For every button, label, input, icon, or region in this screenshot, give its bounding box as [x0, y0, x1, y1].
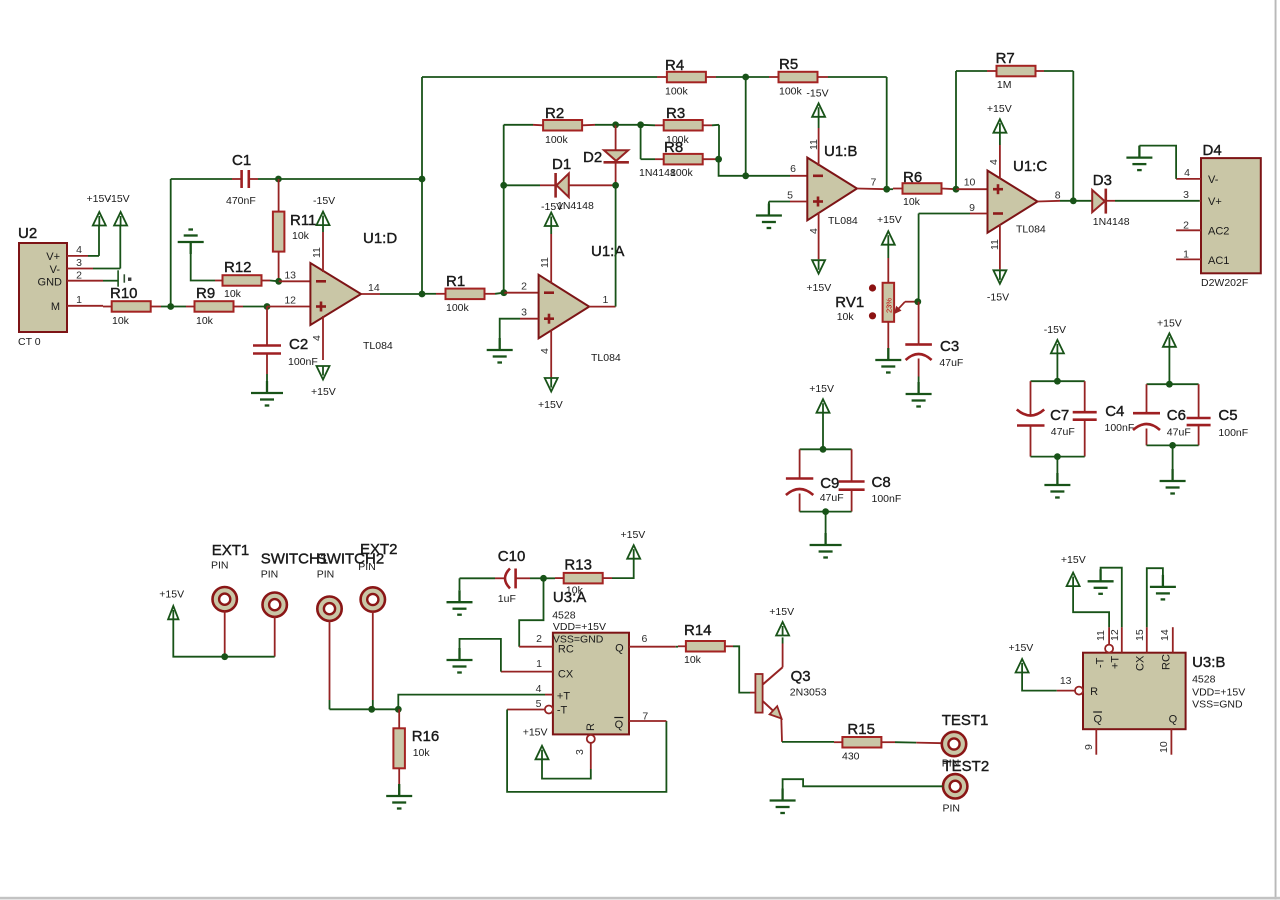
- wire V- riser: [119, 225, 121, 268]
- window edge bottom: [0, 897, 1280, 899]
- U1:A pin 3 ground wire: [500, 319, 539, 338]
- svg-text:CT 0: CT 0: [18, 336, 41, 348]
- wire C2 bottom: [266, 354, 268, 394]
- svg-text:+15V: +15V: [987, 103, 1012, 115]
- U1:B output wire: [857, 188, 887, 191]
- svg-text:Q: Q: [615, 643, 624, 655]
- node junction C1/R11: [275, 176, 282, 183]
- D4 pin 4 stub: [1176, 167, 1201, 179]
- svg-text:D2: D2: [583, 149, 602, 166]
- wire C9/C8 top rail: [800, 448, 852, 450]
- node junction top rail drop: [419, 176, 426, 183]
- power +15V above C9/C8: [809, 383, 834, 413]
- svg-text:12: 12: [1109, 629, 1121, 641]
- resistor R2: [543, 105, 582, 146]
- node junction RV1 wiper / C3: [914, 298, 921, 305]
- window edge right: [1275, 0, 1277, 900]
- wire R5 feedback drop: [886, 77, 888, 189]
- svg-text:R4: R4: [665, 57, 684, 74]
- node junction D1/D2: [612, 182, 619, 189]
- U3:B pin 12 (+T) wire to ground: [1101, 568, 1122, 653]
- svg-text:Q: Q: [1169, 714, 1178, 726]
- svg-text:Q: Q: [615, 719, 624, 731]
- wire -15V stem to rail: [1056, 353, 1058, 381]
- pin EXT1: [211, 542, 249, 611]
- wire to U1:C pin 10: [956, 188, 988, 190]
- wire D4 V- to ground: [1139, 146, 1176, 179]
- op-amp U1:C: [964, 158, 1061, 236]
- svg-text:TL084: TL084: [1016, 224, 1046, 236]
- svg-text:U2: U2: [18, 225, 37, 242]
- svg-text:GND: GND: [38, 277, 63, 289]
- ground below RV1: [875, 348, 901, 373]
- node junction R2/D2/R3: [612, 121, 619, 128]
- svg-text:RV1: RV1: [835, 294, 864, 311]
- svg-text:R11: R11: [290, 212, 316, 229]
- U1:B power -15V top: [806, 88, 828, 167]
- node junction R8 right: [715, 156, 722, 163]
- svg-text:10k: 10k: [292, 230, 310, 242]
- svg-text:2N3053: 2N3053: [790, 687, 827, 699]
- node junction R1/U1:A pin2: [501, 289, 508, 296]
- wire C6/C5 top rail: [1147, 383, 1199, 385]
- wire C1 row to output rail: [278, 178, 422, 180]
- svg-text:TL084: TL084: [591, 352, 621, 364]
- svg-text:VDD=+15V: VDD=+15V: [1192, 687, 1245, 699]
- svg-text:PIN: PIN: [943, 803, 961, 815]
- svg-text:U1:B: U1:B: [824, 143, 857, 160]
- wire +15V stem to rail: [822, 413, 824, 450]
- svg-text:R: R: [1090, 686, 1098, 698]
- ground at U1:B pin 5: [756, 204, 782, 229]
- resistor R5: [779, 56, 818, 98]
- ground at C10 left: [447, 590, 473, 615]
- svg-text:1N4148: 1N4148: [557, 200, 594, 212]
- ground at U3:A CX: [447, 648, 473, 673]
- resistor R9: [195, 285, 234, 327]
- wire C6/C5 bottom rail: [1147, 444, 1199, 446]
- resistor R11: [273, 212, 317, 252]
- wire SWITCH2 stub: [329, 620, 331, 709]
- wire ground to R12: [191, 254, 223, 281]
- U1:A output wire: [589, 306, 615, 308]
- svg-text:7: 7: [871, 177, 877, 189]
- svg-text:U1:D: U1:D: [363, 230, 397, 247]
- svg-text:1N4148: 1N4148: [1093, 216, 1130, 228]
- resistor R3: [664, 105, 703, 146]
- capacitor C7 47uF: [1017, 381, 1075, 456]
- wire R5 left stub: [746, 76, 779, 78]
- wire up to C1 row: [170, 179, 172, 307]
- svg-text:TEST1: TEST1: [942, 712, 989, 729]
- resistor R16: [393, 728, 439, 768]
- U3:B pin 13 (R) bubble and wire: [1022, 673, 1083, 695]
- resistor R13: [564, 557, 603, 597]
- connector D4 (D2W202F): [1201, 142, 1261, 289]
- svg-text:100k: 100k: [545, 134, 569, 146]
- svg-text:47uF: 47uF: [1167, 427, 1191, 439]
- capacitor C1 470nF: [226, 152, 256, 207]
- svg-text:+15V: +15V: [538, 399, 563, 411]
- D4 pin 1 stub: [1176, 249, 1201, 261]
- power +15V above C6/C5: [1157, 318, 1182, 347]
- wire C10 left + ground: [460, 578, 506, 590]
- wire R3/R8 left riser: [640, 125, 642, 159]
- svg-text:+15V: +15V: [1157, 318, 1182, 330]
- node junction R16: [395, 706, 402, 713]
- svg-text:U1:A: U1:A: [591, 243, 624, 260]
- svg-text:4: 4: [311, 335, 323, 341]
- svg-text:Q3: Q3: [791, 668, 811, 685]
- svg-text:+15V: +15V: [806, 282, 831, 294]
- wire SWITCH2/EXT2 row: [330, 708, 399, 710]
- wire junction up to U3:A +T: [398, 695, 545, 710]
- wire to U1:D pin 12: [267, 306, 310, 308]
- wire R6 left: [887, 188, 903, 191]
- svg-text:11: 11: [539, 257, 551, 268]
- svg-text:TL084: TL084: [828, 215, 858, 227]
- diode D3 1N4148: [1092, 172, 1112, 214]
- node junction R4/R5: [742, 74, 749, 81]
- wire top rail left segment: [422, 76, 657, 78]
- U3:A Q-bar label: [614, 718, 623, 732]
- svg-text:9: 9: [969, 202, 975, 214]
- svg-text:+15V: +15V: [1061, 554, 1086, 566]
- svg-text:15: 15: [1134, 629, 1146, 641]
- svg-text:2: 2: [536, 633, 542, 645]
- ground below R16: [386, 784, 412, 809]
- power -15V above C7/C4: [1044, 324, 1066, 353]
- wire junction to U1:A output riser: [615, 185, 617, 306]
- wire R13 right to +15V: [603, 559, 634, 578]
- svg-text:3: 3: [1183, 189, 1189, 201]
- svg-text:C10: C10: [498, 548, 526, 565]
- svg-text:EXT2: EXT2: [360, 541, 398, 558]
- svg-text:12: 12: [284, 295, 296, 307]
- svg-text:D1: D1: [552, 156, 571, 173]
- svg-text:47uF: 47uF: [939, 357, 963, 369]
- wire R15 right to TEST1: [881, 742, 942, 743]
- svg-text:9: 9: [1083, 744, 1095, 750]
- power +15V left: [159, 589, 184, 620]
- wire to U1:B pin 6: [746, 175, 808, 177]
- svg-text:10k: 10k: [837, 311, 855, 323]
- diode D1 1N4148: [504, 156, 616, 198]
- svg-text:TL084: TL084: [363, 340, 393, 352]
- U1:C pin 9 wire: [919, 214, 988, 302]
- svg-text:14: 14: [368, 282, 380, 294]
- wire R16 top: [398, 709, 400, 728]
- svg-text:D2W202F: D2W202F: [1201, 277, 1248, 289]
- svg-text:C3: C3: [940, 338, 959, 355]
- svg-text:R16: R16: [412, 728, 440, 745]
- wire C7/C4 top rail: [1031, 380, 1085, 382]
- capacitor C5 100nF: [1187, 384, 1249, 445]
- ground at U1:A pin 3: [487, 338, 513, 363]
- ground below C7/C4: [1044, 473, 1070, 498]
- wire R6 right: [942, 188, 957, 191]
- ground below C3: [906, 382, 932, 407]
- svg-text:470nF: 470nF: [226, 195, 256, 207]
- svg-text:8: 8: [1055, 190, 1061, 202]
- op-amp U1:A: [521, 243, 624, 364]
- svg-text:D4: D4: [1203, 142, 1222, 159]
- node junction C9/C8 top: [820, 446, 827, 453]
- node junction C10/R13/RC: [540, 575, 547, 582]
- U3:B pin 15 (CX) wire to ground: [1134, 568, 1163, 653]
- svg-text:11: 11: [311, 247, 323, 258]
- wire R3 left: [616, 124, 664, 127]
- Q3 collector wire to +15V: [782, 637, 784, 667]
- U3:A pin 1 (CX) wire: [460, 639, 553, 672]
- U3:A pin 3 (R) bubble and wire: [542, 735, 595, 779]
- wire C1 right: [249, 178, 279, 180]
- power +15V at Q3: [769, 606, 794, 636]
- svg-text:Q: Q: [1094, 714, 1103, 726]
- svg-text:-T: -T: [1095, 657, 1107, 668]
- wire R9 left: [171, 306, 195, 308]
- wire R7 right: [1036, 70, 1074, 72]
- svg-text:R14: R14: [684, 622, 712, 639]
- svg-text:CX: CX: [1134, 655, 1146, 671]
- wire SWITCH1 stub: [274, 616, 276, 656]
- svg-text:23%: 23%: [884, 298, 893, 313]
- svg-text:47uF: 47uF: [1051, 426, 1075, 438]
- wire junction down to U1:B pin 6 row: [745, 77, 747, 176]
- power -15V (U2 V-): [108, 193, 130, 226]
- resistor R7: [996, 50, 1036, 91]
- node junction C6/C5 bottom: [1169, 442, 1176, 449]
- ground (inverted) at R12 input: [178, 230, 204, 255]
- wire R9 right: [234, 306, 268, 308]
- svg-text:100k: 100k: [779, 86, 803, 98]
- svg-text:+15V: +15V: [621, 529, 646, 541]
- svg-text:5: 5: [536, 698, 542, 710]
- svg-text:U3:A: U3:A: [553, 589, 586, 606]
- svg-text:1uF: 1uF: [498, 593, 516, 605]
- wire C3 top: [918, 302, 920, 345]
- resistor R6: [903, 169, 942, 208]
- wire R8 junction down and right to U1:B pin 6: [719, 159, 746, 176]
- svg-text:100nF: 100nF: [1105, 422, 1135, 434]
- ground marker at U2 GND pin: [118, 270, 131, 286]
- svg-text:U1:C: U1:C: [1013, 158, 1047, 175]
- wire R10 left: [103, 306, 112, 308]
- wire +15V stem to rail: [1168, 347, 1170, 384]
- U3:B pin 11 (-T) bubble and wire: [1073, 586, 1113, 653]
- node junction R11/R12/pin13: [275, 278, 282, 285]
- svg-text:13: 13: [1060, 675, 1072, 687]
- wire R2 left: [504, 124, 543, 127]
- svg-text:R8: R8: [664, 139, 683, 156]
- svg-text:V+: V+: [1208, 196, 1222, 208]
- wire C2 top: [266, 307, 268, 346]
- svg-text:R1: R1: [446, 273, 465, 290]
- svg-text:3: 3: [521, 307, 527, 319]
- U1:D power +15V bottom: [311, 316, 336, 398]
- svg-text:6: 6: [790, 163, 796, 175]
- op-amp U1:D: [284, 230, 397, 352]
- ground at D4 V-: [1126, 146, 1152, 171]
- svg-text:PIN: PIN: [317, 569, 335, 581]
- svg-text:14: 14: [1159, 629, 1171, 641]
- wire output riser: [421, 179, 423, 294]
- wire to ground: [1172, 445, 1174, 481]
- node junction EXT2: [368, 706, 375, 713]
- wire R3 right riser: [718, 125, 720, 159]
- svg-text:10k: 10k: [684, 654, 702, 666]
- svg-text:-15V: -15V: [987, 292, 1009, 304]
- U3:B pin 14 (RC) stub: [1159, 627, 1173, 653]
- svg-text:C8: C8: [872, 474, 891, 491]
- svg-text:3: 3: [574, 749, 586, 755]
- svg-text:4528: 4528: [1192, 674, 1216, 686]
- svg-text:PIN: PIN: [358, 561, 376, 573]
- svg-text:+15V: +15V: [311, 386, 336, 398]
- op-amp U1:B: [787, 143, 876, 227]
- capacitor C3 47uF: [905, 338, 963, 369]
- svg-text:VDD=+15V: VDD=+15V: [553, 621, 606, 633]
- RV1 wiper arrow: [894, 302, 918, 315]
- svg-text:4: 4: [539, 348, 551, 354]
- svg-text:TEST2: TEST2: [943, 758, 990, 775]
- svg-text:-T: -T: [557, 705, 568, 717]
- wire R8 left: [641, 158, 664, 160]
- resistor R1: [446, 273, 485, 314]
- U3:A pin 7 (Q-bar) stub: [629, 711, 666, 723]
- wire C3 bottom: [918, 359, 920, 395]
- U1:A power +15V bottom: [538, 330, 563, 411]
- capacitor C4 100nF: [1073, 381, 1135, 456]
- transistor Q3 2N3053: [755, 667, 826, 718]
- wire vertical feedback net x=503.7: [503, 125, 505, 293]
- capacitor C2 100nF: [253, 336, 318, 368]
- svg-text:RC: RC: [1160, 654, 1172, 670]
- svg-text:C1: C1: [232, 152, 251, 169]
- U2 pin 3 stub: [67, 257, 120, 269]
- svg-text:V-: V-: [1208, 174, 1219, 186]
- svg-text:+15V: +15V: [809, 383, 834, 395]
- IC U3:B (4528): [1083, 653, 1245, 730]
- svg-text:R6: R6: [903, 169, 922, 186]
- svg-text:EXT1: EXT1: [212, 542, 250, 559]
- wire R1 right: [485, 293, 504, 294]
- svg-text:R2: R2: [545, 105, 564, 122]
- power +15V above RV1: [877, 214, 902, 245]
- svg-text:D3: D3: [1093, 172, 1112, 189]
- svg-text:100k: 100k: [670, 167, 694, 179]
- node junction R3/R8 left: [637, 121, 644, 128]
- wire R1 left: [422, 293, 445, 295]
- svg-text:M: M: [51, 301, 60, 313]
- wire R7 drop to U1:C output: [1072, 71, 1074, 201]
- diode D2 1N4148: [583, 125, 629, 186]
- svg-text:10k: 10k: [196, 315, 214, 327]
- svg-text:1: 1: [603, 294, 609, 306]
- wire +15V to pins: [173, 620, 274, 657]
- svg-text:-15V: -15V: [806, 88, 828, 100]
- svg-text:PIN: PIN: [211, 560, 229, 572]
- svg-text:47uF: 47uF: [820, 492, 844, 504]
- svg-text:R3: R3: [666, 105, 685, 122]
- svg-text:4: 4: [1184, 167, 1190, 179]
- svg-text:C6: C6: [1167, 407, 1186, 424]
- svg-text:10: 10: [964, 177, 976, 189]
- svg-text:C5: C5: [1218, 407, 1237, 424]
- wire R7 left: [956, 70, 997, 72]
- svg-text:3: 3: [76, 257, 82, 269]
- node junction pin6 row: [742, 172, 749, 179]
- svg-text:R7: R7: [996, 50, 1015, 67]
- U3:A pin 4 (+T) stub: [536, 683, 553, 695]
- wire R5 right: [818, 76, 887, 78]
- power +15V at U3:B -T: [1061, 554, 1086, 586]
- U1:D power -15V top: [313, 195, 335, 272]
- svg-text:1M: 1M: [997, 79, 1012, 91]
- svg-text:R15: R15: [847, 721, 875, 738]
- wire C9/C8 bottom rail: [800, 511, 852, 513]
- svg-text:AC2: AC2: [1208, 226, 1229, 238]
- RV1 marker dots: [869, 284, 876, 319]
- capacitor C8 100nF: [839, 449, 902, 511]
- svg-text:CX: CX: [558, 669, 574, 681]
- wire to ground: [825, 512, 827, 545]
- svg-text:PIN: PIN: [261, 569, 279, 581]
- svg-text:-15V: -15V: [108, 193, 130, 205]
- wire EXT2 stub: [372, 611, 374, 709]
- svg-text:R13: R13: [564, 557, 592, 574]
- svg-text:+15V: +15V: [769, 606, 794, 618]
- svg-text:-15V: -15V: [1044, 324, 1066, 336]
- resistor R4: [665, 57, 706, 98]
- svg-text:6: 6: [642, 633, 648, 645]
- wire R10 right: [151, 306, 171, 308]
- ground below C9/C8: [810, 533, 842, 558]
- svg-text:VSS=GND: VSS=GND: [1192, 699, 1243, 711]
- svg-text:10k: 10k: [903, 196, 921, 208]
- ground below C2: [251, 381, 283, 406]
- capacitor C10 1uF: [498, 548, 526, 605]
- svg-text:11: 11: [1095, 630, 1107, 641]
- svg-text:100k: 100k: [446, 302, 470, 314]
- resistor R14: [684, 622, 725, 666]
- svg-text:100nF: 100nF: [288, 356, 318, 368]
- svg-text:+15V: +15V: [523, 727, 548, 739]
- svg-text:+15V: +15V: [159, 589, 184, 601]
- svg-text:4528: 4528: [552, 610, 576, 622]
- svg-text:100nF: 100nF: [872, 493, 902, 505]
- svg-text:+T: +T: [557, 691, 570, 703]
- wire R11 bottom: [278, 252, 280, 282]
- resistor R15: [842, 721, 881, 763]
- svg-text:U3:B: U3:B: [1192, 654, 1225, 671]
- U3:A pin 2 (RC) wire: [519, 578, 553, 646]
- svg-text:4: 4: [76, 244, 82, 256]
- node junction U1:B out/R5: [883, 186, 890, 193]
- svg-text:10k: 10k: [112, 315, 130, 327]
- U2 pin 1 stub: [67, 294, 103, 306]
- svg-text:100k: 100k: [665, 86, 689, 98]
- wire R8 right: [703, 158, 719, 160]
- D4 pin 3 stub: [1183, 189, 1201, 201]
- ground at U3:B CX: [1150, 575, 1176, 600]
- node junction C9/C8 bottom: [822, 508, 829, 515]
- ground below C6/C5: [1160, 469, 1186, 494]
- wire C10 right: [516, 577, 544, 579]
- svg-text:13: 13: [284, 270, 296, 282]
- svg-text:R9: R9: [196, 285, 215, 302]
- svg-text:10k: 10k: [413, 747, 431, 759]
